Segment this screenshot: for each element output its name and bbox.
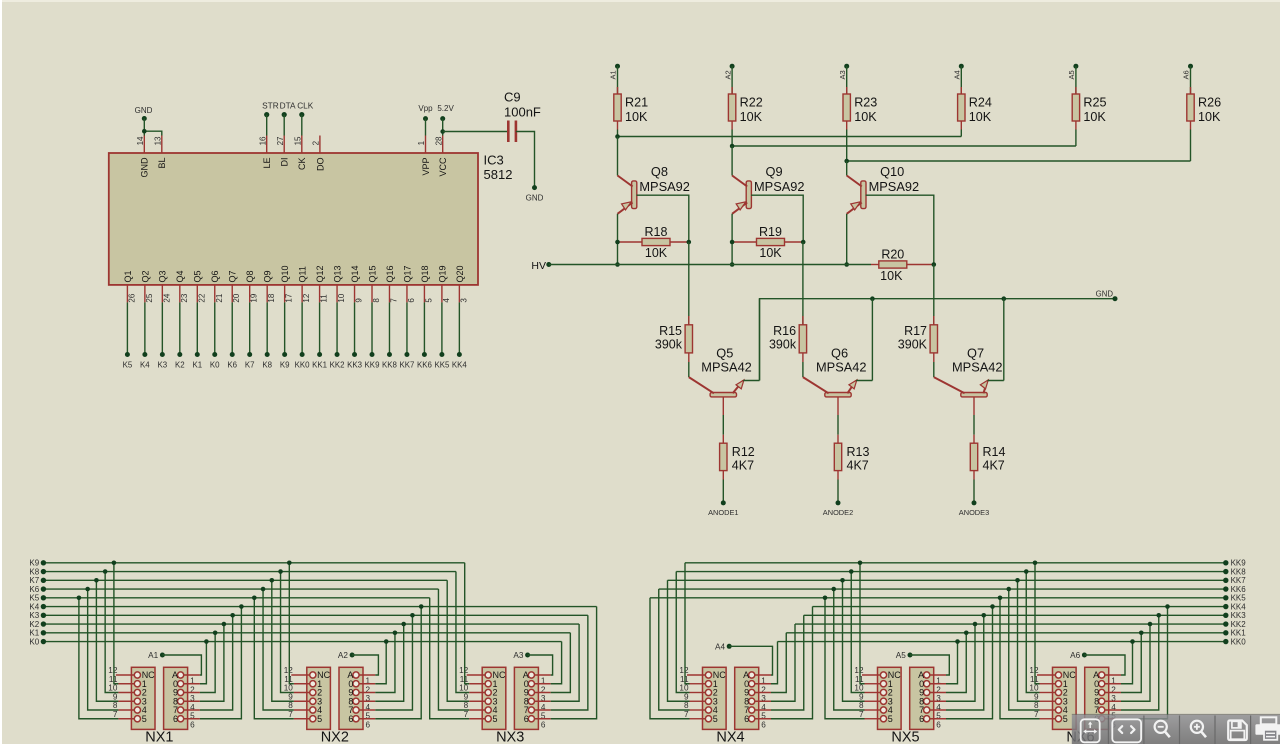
svg-text:Q5: Q5 — [716, 345, 733, 360]
svg-text:Q8: Q8 — [651, 164, 668, 179]
NX3 pin 11 (1) — [460, 675, 498, 689]
wire A3 to pin A — [528, 655, 553, 675]
svg-text:1: 1 — [417, 140, 426, 145]
resistor R12 4K7 — [720, 443, 727, 470]
svg-text:5: 5 — [424, 298, 433, 303]
junction K0 / NX1 — [204, 639, 209, 644]
svg-text:390K: 390K — [898, 338, 928, 352]
wire A5 to R25 — [1075, 66, 1077, 94]
junction K5 / NX2 — [252, 596, 257, 601]
NX1 pin 2 (0) — [173, 679, 200, 695]
wire bus K0 — [43, 641, 561, 643]
svg-text:8: 8 — [684, 701, 689, 710]
wire DTA to IC3 — [283, 115, 285, 136]
junction K1 / NX2 — [393, 631, 398, 636]
svg-text:12: 12 — [459, 666, 469, 675]
nixie tube NX5 cathode block — [878, 667, 902, 729]
svg-text:A5: A5 — [1067, 70, 1076, 79]
svg-text:VPP: VPP — [421, 158, 431, 176]
svg-text:9: 9 — [464, 692, 469, 701]
svg-text:23: 23 — [180, 293, 189, 302]
wire A3 to R23 — [846, 66, 848, 94]
junction Q8 emitter / HV rail — [615, 262, 620, 267]
node terminal KK5 — [1223, 594, 1246, 603]
node terminal A2 (top) — [723, 64, 734, 80]
svg-text:9: 9 — [355, 298, 364, 303]
svg-text:5: 5 — [888, 714, 893, 724]
junction R23/Q10 rail — [844, 159, 849, 164]
node terminal K8 — [29, 567, 46, 576]
IC3 top pin 2 (DO) — [312, 136, 326, 172]
wire Q13 to terminal KK2 — [336, 302, 338, 354]
IC3 bottom pin 21 (Q6) — [210, 270, 224, 302]
NX1 pin 9 (3) — [113, 692, 147, 706]
nixie tube NX5 anode/digit block — [910, 667, 934, 729]
power terminal GND (IC3 pins 14/13) — [135, 106, 153, 121]
nixie tube NX6 anode/digit block — [1085, 667, 1109, 729]
ground terminal GND (C9) — [526, 185, 544, 202]
wire NX2 pin 11 to K9 — [289, 563, 294, 684]
svg-text:Q10: Q10 — [280, 265, 290, 282]
svg-text:A4: A4 — [953, 70, 962, 79]
svg-text:K1: K1 — [192, 361, 202, 370]
junction K4 / NX2 — [419, 604, 424, 609]
svg-text:K5: K5 — [123, 361, 133, 370]
svg-text:Q5: Q5 — [193, 270, 203, 282]
svg-text:ANODE1: ANODE1 — [708, 508, 738, 517]
svg-text:Q16: Q16 — [385, 265, 395, 282]
svg-text:26: 26 — [127, 293, 136, 302]
svg-text:R20: R20 — [881, 248, 904, 262]
wire NX5 pin 7 to KK3 — [946, 615, 984, 710]
wire bus KK4 — [813, 606, 1226, 608]
wire bus K2 — [43, 623, 579, 625]
svg-text:6: 6 — [366, 720, 371, 729]
junction K2 / NX1 — [222, 622, 227, 627]
node terminal ANODE3 — [959, 500, 989, 516]
junction KK7 / NX5 — [840, 578, 845, 583]
NX4 pin 8 (4) — [684, 701, 718, 715]
label R20 10K — [880, 248, 904, 284]
wire Q16 to terminal KK8 — [388, 302, 390, 354]
NX4 pin 10 (2) — [679, 684, 717, 698]
wire Q9 base to R19 — [751, 195, 803, 242]
junction K0 / NX2 — [384, 639, 389, 644]
svg-text:6: 6 — [190, 720, 195, 729]
svg-text:K2: K2 — [175, 361, 185, 370]
svg-text:12: 12 — [284, 666, 294, 675]
svg-text:Q7: Q7 — [228, 270, 238, 282]
svg-text:3: 3 — [459, 298, 468, 303]
svg-text:KK8: KK8 — [1231, 567, 1247, 576]
svg-text:Q18: Q18 — [420, 265, 430, 282]
NX1 pin 10 (2) — [108, 684, 146, 698]
svg-text:K1: K1 — [29, 629, 39, 638]
IC3 bottom pin 7 (Q16) — [385, 265, 399, 302]
svg-text:6: 6 — [919, 714, 924, 724]
nixie tube NX4 anode/digit block — [735, 667, 759, 729]
svg-text:Q19: Q19 — [437, 265, 447, 282]
junction K9 / NX2 — [287, 561, 292, 566]
svg-text:6: 6 — [541, 720, 546, 729]
wire STR to IC3 — [266, 115, 268, 136]
svg-text:NX1: NX1 — [145, 730, 173, 744]
svg-text:8: 8 — [372, 298, 381, 303]
node terminal KK8 — [1223, 567, 1246, 576]
svg-text:K3: K3 — [29, 611, 39, 620]
power terminal Vpp — [418, 104, 433, 121]
svg-text:K9: K9 — [29, 559, 39, 568]
junction R18 right — [687, 240, 692, 245]
svg-text:A2: A2 — [338, 651, 348, 660]
svg-text:24: 24 — [162, 293, 171, 302]
node terminal K5 — [29, 594, 46, 603]
toolbar separator — [1179, 716, 1181, 744]
wire bus KK7 — [668, 579, 1226, 581]
wire A6 to R26 — [1190, 66, 1192, 94]
svg-text:12: 12 — [1029, 666, 1039, 675]
svg-text:BL: BL — [157, 158, 167, 169]
wire rail A2-R25 (base rail Q9) — [732, 145, 1076, 147]
wire Q10 emitter down to HV rail — [846, 214, 848, 265]
svg-text:Vpp: Vpp — [418, 104, 433, 113]
toolbar button pan arrows — [1112, 719, 1141, 742]
wire Q6 collector down to R13 — [837, 397, 839, 443]
NX5 pin 11 (1) — [855, 675, 893, 689]
resistor R13 4K7 — [834, 443, 841, 470]
node terminal KK3 — [347, 352, 363, 370]
svg-text:12: 12 — [108, 666, 118, 675]
svg-text:K6: K6 — [29, 585, 39, 594]
svg-text:HV: HV — [531, 260, 546, 272]
svg-text:8: 8 — [1034, 701, 1039, 710]
svg-text:12: 12 — [679, 666, 689, 675]
nixie tube NX1 cathode block — [131, 667, 155, 729]
wire NX1 pin 11 to K9 — [114, 563, 119, 684]
wire R16 to Q6 base — [802, 353, 804, 377]
NX1 pin 1 (A) — [172, 670, 200, 686]
wire NX5 pin 7 to KK5 — [825, 598, 865, 719]
junction KK2 / NX6 — [1148, 622, 1153, 627]
wire bus KK9 — [685, 562, 1226, 564]
nixie tube NX2 cathode block — [307, 667, 331, 729]
wire 5.2V to pin 28 (VCC) — [442, 119, 444, 136]
wire bus K5 — [43, 597, 429, 599]
wire Q7 collector down to R14 — [973, 397, 975, 443]
NX4 pin 11 (1) — [680, 675, 718, 689]
node terminal A6 (anode) — [1070, 651, 1087, 660]
junction KK1 / NX6 — [1139, 631, 1144, 636]
NX2 pin 12 (NC) — [284, 666, 331, 680]
svg-text:7: 7 — [859, 710, 864, 719]
NX6 pin 8 (4) — [1034, 701, 1068, 715]
power terminal 5.2V — [437, 104, 454, 121]
NX1 pin 8 (4) — [113, 701, 147, 715]
label NX3 — [496, 730, 524, 744]
junction K1 / NX1 — [213, 631, 218, 636]
node terminal A5 (anode) — [896, 651, 913, 660]
NX4 pin 4 (8) — [744, 696, 771, 712]
label IC3 5812 — [484, 153, 513, 183]
svg-text:10K: 10K — [625, 110, 648, 124]
wire Q4 to terminal K2 — [179, 302, 181, 354]
svg-text:A6: A6 — [1070, 651, 1080, 660]
svg-text:6: 6 — [744, 714, 749, 724]
wire Q2 to terminal K4 — [144, 302, 146, 354]
label R24 10K — [969, 95, 992, 124]
wire NX2 pin 10 to K8 — [281, 572, 294, 693]
wire base column to R15 — [688, 242, 690, 325]
wire Q8 to terminal K7 — [249, 302, 251, 354]
junction KK4 / NX5 — [990, 604, 995, 609]
svg-text:GND: GND — [526, 193, 544, 202]
label Q7 MPSA42 — [952, 345, 1003, 374]
svg-text:12: 12 — [302, 293, 311, 302]
NX6 pin 5 (7) — [1094, 705, 1121, 721]
wire Q7 to terminal K6 — [231, 302, 233, 354]
svg-text:Q8: Q8 — [245, 270, 255, 282]
wire NX2 pin 7 to K3 — [375, 615, 412, 710]
node terminal K4 — [140, 352, 150, 370]
ground terminal GND (rail) — [1096, 289, 1118, 301]
wire bus K1 — [43, 632, 570, 634]
label NX6 — [1066, 730, 1094, 744]
wire NX6 pin 0 to KK0 — [1121, 642, 1133, 684]
wire base column to R17 — [933, 265, 935, 325]
wire Vpp to pin 1 — [425, 119, 427, 136]
junction KK3 / NX6 — [1156, 613, 1161, 618]
node terminal A4 (top) — [953, 64, 964, 80]
svg-text:8: 8 — [464, 701, 469, 710]
svg-text:Q13: Q13 — [332, 265, 342, 282]
NX4 pin 3 (9) — [744, 688, 771, 704]
svg-text:10K: 10K — [645, 246, 668, 260]
wire A2 to R22 — [731, 66, 733, 94]
NX5 pin 10 (2) — [854, 684, 892, 698]
wire Q5 emitter up to GND rail — [743, 299, 759, 381]
wire NX4 pin 10 to KK8 — [676, 572, 689, 693]
svg-text:K5: K5 — [29, 594, 39, 603]
svg-text:100nF: 100nF — [504, 104, 541, 119]
svg-text:NX2: NX2 — [321, 730, 349, 744]
wire NX4 pin 8 to KK6 — [659, 589, 690, 710]
wire Q3 to terminal K3 — [161, 302, 163, 354]
svg-text:17: 17 — [285, 293, 294, 302]
NX2 pin 3 (9) — [348, 688, 375, 704]
IC3 bottom pin 4 (Q19) — [437, 265, 451, 302]
svg-text:10K: 10K — [880, 269, 903, 283]
svg-text:K8: K8 — [29, 567, 39, 576]
wire Q8 emitter down — [617, 214, 619, 265]
node terminal KK0 — [295, 352, 311, 370]
node terminal A4 (anode) — [715, 642, 732, 651]
IC3 bottom pin 11 (Q12) — [315, 265, 329, 302]
svg-text:6: 6 — [761, 720, 766, 729]
wire NX2 pin 9 to K7 — [272, 580, 294, 701]
NX1 pin 5 (7) — [173, 705, 200, 721]
junction K6 / NX2 — [261, 587, 266, 592]
transistor Q5 MPSA42 — [689, 377, 744, 397]
wire A3 rail to Q10 emitter — [846, 161, 848, 176]
IC3 bottom pin 22 (Q5) — [193, 270, 207, 302]
label NX4 — [716, 730, 744, 744]
svg-text:MPSA42: MPSA42 — [952, 359, 1003, 374]
node terminal K7 — [245, 352, 255, 370]
label Q6 MPSA42 — [816, 345, 867, 374]
NX5 pin 7 (5) — [859, 710, 893, 724]
wire C9 to GND — [516, 132, 535, 188]
IC3 top pin 1 (VPP) — [417, 136, 431, 176]
junction VCC / C9 — [440, 129, 445, 134]
node terminal K1 — [192, 352, 202, 370]
svg-text:R15: R15 — [659, 324, 682, 338]
svg-text:Q9: Q9 — [766, 164, 783, 179]
wire HV rail — [549, 264, 871, 266]
svg-text:6: 6 — [524, 714, 529, 724]
wire NX6 pin 6 to KK4 — [1121, 607, 1168, 719]
wire A6 to pin A — [1084, 655, 1125, 675]
wire Q10 base down to R20 junction — [866, 195, 934, 264]
wire bus KK0 — [778, 641, 1226, 643]
IC IC3 (5812 driver) body — [109, 153, 478, 285]
svg-text:R23: R23 — [854, 95, 877, 109]
wire bus KK6 — [659, 588, 1226, 590]
wire NX4 pin 0 to KK0 — [771, 642, 778, 684]
NX4 pin 1 (A) — [743, 670, 771, 686]
NX6 pin 1 (A) — [1093, 670, 1121, 686]
wire R14 to ANODE3 — [973, 471, 975, 503]
svg-text:DTA: DTA — [280, 101, 296, 111]
NX5 pin 6 (6) — [919, 714, 946, 730]
wire bus K4 — [43, 606, 596, 608]
svg-text:10K: 10K — [1083, 110, 1106, 124]
svg-text:A2: A2 — [723, 70, 732, 79]
svg-text:R16: R16 — [773, 324, 796, 338]
svg-text:14: 14 — [136, 136, 145, 145]
svg-text:20: 20 — [232, 293, 241, 302]
node terminal A6 (top) — [1182, 64, 1193, 80]
svg-text:KK9: KK9 — [365, 361, 381, 370]
svg-text:NX5: NX5 — [891, 730, 919, 744]
wire NX2 pin 0 to K0 — [375, 642, 386, 684]
svg-text:KK7: KK7 — [1231, 576, 1247, 585]
node terminal A1 (anode) — [148, 651, 165, 660]
svg-text:5: 5 — [317, 714, 322, 724]
node terminal KK9 — [365, 352, 381, 370]
nixie tube NX6 cathode block — [1053, 667, 1077, 729]
svg-text:KK6: KK6 — [417, 361, 433, 370]
NX3 pin 12 (NC) — [459, 666, 506, 680]
wire bus K8 — [43, 571, 456, 573]
wire NX3 pin 0 to K0 — [551, 642, 562, 684]
svg-text:5: 5 — [713, 714, 718, 724]
svg-text:MPSA92: MPSA92 — [754, 179, 805, 194]
node terminal K2 — [29, 620, 46, 629]
junction K7 / NX1 — [94, 578, 99, 583]
wire NX3 pin 9 to K1 — [551, 633, 571, 693]
node terminal KK9 — [1223, 559, 1246, 568]
junction K9 / NX1 — [112, 561, 117, 566]
wire Q5 collector down to R12 — [722, 397, 724, 443]
label R25 10K — [1083, 95, 1106, 124]
label R14 4K7 — [983, 445, 1006, 473]
wire Q7 emitter up to GND rail — [988, 299, 1004, 381]
wire CLK to IC3 — [301, 115, 303, 136]
NX1 pin 7 (5) — [113, 710, 147, 724]
wire Q12 to terminal KK1 — [319, 302, 321, 354]
label Q5 MPSA42 — [701, 345, 752, 374]
label R12 4K7 — [732, 445, 755, 473]
NX1 pin 11 (1) — [109, 675, 147, 689]
svg-text:ANODE2: ANODE2 — [823, 508, 853, 517]
svg-text:5: 5 — [493, 714, 498, 724]
wire R15 to Q5 base — [688, 353, 690, 377]
wire Q9 emitter down — [731, 214, 733, 265]
wire NX6 pin 7 to KK3 — [1121, 615, 1159, 710]
wire NX3 pin 9 to K7 — [447, 580, 469, 701]
wire Q5 to terminal K1 — [196, 302, 198, 354]
wire NX1 pin 8 to K6 — [88, 589, 119, 710]
svg-text:Q20: Q20 — [455, 265, 465, 282]
IC3 bottom pin 23 (Q4) — [175, 270, 189, 302]
nixie tube NX3 anode/digit block — [514, 667, 538, 729]
wire Q17 to terminal KK7 — [406, 302, 408, 354]
svg-text:A3: A3 — [838, 70, 847, 79]
svg-text:10: 10 — [284, 684, 294, 693]
svg-text:390k: 390k — [655, 338, 683, 352]
svg-text:15: 15 — [294, 136, 303, 145]
wire bus K3 — [43, 614, 587, 616]
NX6 pin 10 (2) — [1029, 684, 1067, 698]
wire NX2 pin 9 to K1 — [375, 633, 395, 693]
svg-text:Q3: Q3 — [158, 270, 168, 282]
wire R25 to rail — [1075, 121, 1077, 146]
wire Q6 emitter up to GND rail — [856, 299, 872, 381]
wire R23 to rail — [846, 121, 848, 161]
NX2 pin 11 (1) — [284, 675, 322, 689]
svg-text:KK1: KK1 — [312, 361, 327, 370]
junction KK5 / NX6 — [998, 596, 1003, 601]
capacitor C9 100nF — [508, 121, 516, 143]
svg-text:A1: A1 — [148, 651, 158, 660]
svg-text:IC3: IC3 — [484, 153, 504, 168]
wire NX6 pin 7 to KK5 — [1000, 598, 1040, 719]
junction KK2 / NX5 — [973, 622, 978, 627]
wire NX2 pin 7 to K5 — [254, 598, 293, 719]
node terminal KK2 — [330, 352, 345, 370]
svg-text:R13: R13 — [847, 445, 870, 459]
svg-text:Q17: Q17 — [402, 265, 412, 282]
wire NX1 pin 7 to K5 — [79, 598, 119, 719]
junction KK3 / NX5 — [981, 613, 986, 618]
wire R13 to ANODE2 — [837, 471, 839, 503]
NX1 pin 4 (8) — [173, 696, 200, 712]
label R13 4K7 — [847, 445, 870, 473]
wire NX3 pin 6 to K4 — [551, 607, 597, 719]
svg-text:A1: A1 — [609, 70, 618, 79]
node terminal KK6 — [1223, 585, 1246, 594]
junction R20 right / Q10 base / R17 — [932, 262, 937, 267]
svg-text:7: 7 — [464, 710, 469, 719]
svg-text:CK: CK — [297, 158, 307, 171]
wire A1 to pin A — [162, 655, 201, 675]
svg-text:10: 10 — [854, 684, 864, 693]
NX3 pin 9 (3) — [464, 692, 498, 706]
label R15 390k — [655, 324, 683, 352]
svg-text:Q9: Q9 — [263, 270, 273, 282]
svg-text:10K: 10K — [854, 110, 877, 124]
NX6 pin 4 (8) — [1094, 696, 1121, 712]
